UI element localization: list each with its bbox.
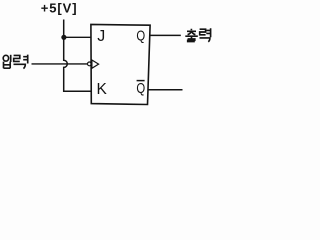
svg-text:+5[V]: +5[V] <box>41 0 78 15</box>
svg-text:K: K <box>97 81 108 98</box>
svg-text:J: J <box>97 28 105 45</box>
svg-text:Q: Q <box>136 80 145 97</box>
svg-text:Q: Q <box>136 27 145 44</box>
